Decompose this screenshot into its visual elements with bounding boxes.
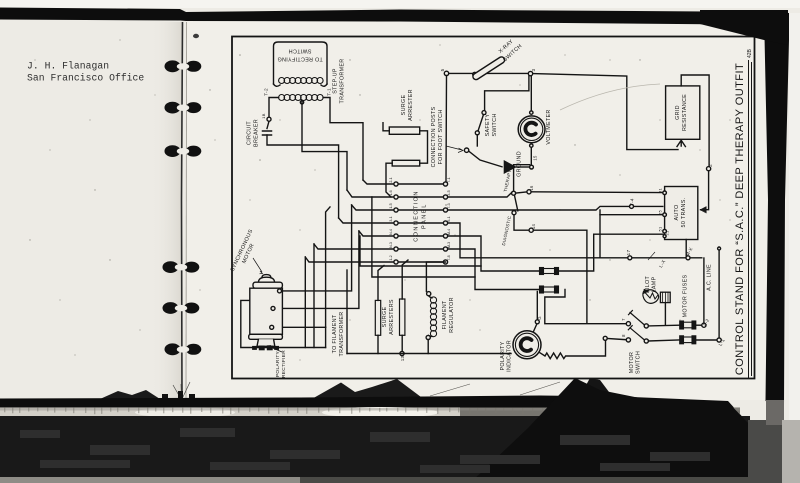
- svg-text:TRANSFORMER: TRANSFORMER: [340, 59, 346, 104]
- svg-text:LAMP: LAMP: [652, 276, 658, 292]
- svg-text:2-1: 2-1: [389, 177, 393, 182]
- svg-text:T-4: T-4: [630, 198, 635, 206]
- svg-text:SURGE: SURGE: [382, 307, 388, 328]
- svg-text:14: 14: [531, 224, 536, 230]
- svg-text:3-1: 3-1: [389, 216, 393, 221]
- svg-text:CONTROL STAND FOR “S.A.C.” DEE: CONTROL STAND FOR “S.A.C.” DEEP THERAPY …: [734, 63, 746, 375]
- svg-text:42B: 42B: [747, 48, 753, 58]
- svg-text:SWITCH: SWITCH: [288, 48, 311, 54]
- svg-text:N-4: N-4: [389, 229, 393, 235]
- svg-text:1-6: 1-6: [389, 190, 393, 195]
- svg-text:CIRCUIT: CIRCUIT: [247, 121, 253, 145]
- svg-text:2: 2: [708, 164, 713, 167]
- svg-text:G: G: [537, 316, 542, 320]
- svg-text:17: 17: [626, 250, 631, 256]
- svg-text:POLARITY: POLARITY: [275, 350, 281, 377]
- svg-text:MOTOR: MOTOR: [629, 352, 635, 373]
- svg-text:FILAMENT: FILAMENT: [442, 300, 448, 329]
- svg-text:21: 21: [665, 230, 670, 236]
- svg-text:RECTIFIER: RECTIFIER: [281, 350, 287, 378]
- svg-text:SWITCH: SWITCH: [492, 113, 498, 136]
- svg-text:1-5: 1-5: [389, 203, 393, 208]
- svg-text:1B: 1B: [261, 113, 266, 119]
- svg-text:RESISTANCE: RESISTANCE: [682, 94, 688, 131]
- svg-text:7-8: 7-8: [447, 255, 451, 260]
- svg-text:T-2: T-2: [264, 88, 270, 96]
- svg-text:8: 8: [621, 334, 626, 337]
- svg-text:SURGE: SURGE: [401, 95, 407, 116]
- svg-text:GRID: GRID: [675, 105, 681, 120]
- svg-text:ARRESTERS: ARRESTERS: [389, 299, 395, 335]
- svg-text:7-1: 7-1: [447, 177, 451, 182]
- svg-text:TO RECTIFYING: TO RECTIFYING: [277, 56, 322, 62]
- svg-text:SWITCH: SWITCH: [636, 351, 642, 374]
- svg-text:15: 15: [533, 155, 538, 161]
- svg-text:3-5: 3-5: [447, 190, 451, 195]
- svg-text:7-3: 7-3: [447, 203, 451, 208]
- svg-text:AUTO: AUTO: [674, 204, 680, 220]
- svg-text:51: 51: [658, 226, 663, 232]
- svg-text:CONNECTION POSTS: CONNECTION POSTS: [431, 106, 437, 167]
- svg-text:1-2: 1-2: [389, 255, 393, 260]
- svg-text:T-1: T-1: [327, 88, 333, 96]
- svg-text:ARRESTER: ARRESTER: [408, 89, 414, 121]
- svg-text:TO FILAMENT: TO FILAMENT: [332, 314, 338, 353]
- svg-text:6-1: 6-1: [447, 216, 451, 221]
- svg-text:BREAKER: BREAKER: [254, 119, 260, 147]
- svg-text:M-3: M-3: [447, 242, 451, 248]
- svg-text:VOLTMETER: VOLTMETER: [546, 109, 552, 144]
- svg-text:13: 13: [400, 356, 405, 362]
- svg-text:7: 7: [621, 318, 626, 321]
- svg-text:N-3: N-3: [389, 242, 393, 248]
- svg-text:31: 31: [658, 188, 663, 194]
- svg-text:3: 3: [531, 68, 536, 71]
- svg-text:POLARITY: POLARITY: [500, 341, 506, 370]
- svg-text:FOR FOOT SWITCH: FOR FOOT SWITCH: [438, 109, 444, 164]
- svg-text:GROUND: GROUND: [517, 151, 523, 177]
- svg-text:SAFETY: SAFETY: [485, 114, 491, 137]
- svg-text:REGULATOR: REGULATOR: [449, 297, 455, 333]
- svg-text:50 TRANS.: 50 TRANS.: [681, 198, 687, 228]
- svg-text:STEP-UP: STEP-UP: [333, 68, 339, 94]
- svg-text:TRANSFORMER: TRANSFORMER: [339, 312, 345, 357]
- svg-text:5: 5: [440, 68, 445, 71]
- svg-text:PANEL: PANEL: [422, 203, 428, 229]
- svg-text:16: 16: [529, 185, 534, 191]
- svg-text:55: 55: [658, 210, 663, 216]
- svg-text:INDICATOR: INDICATOR: [507, 340, 513, 372]
- svg-text:PILOT: PILOT: [645, 276, 651, 293]
- svg-text:J. H. Flanagan: J. H. Flanagan: [27, 61, 109, 72]
- svg-text:San Francisco Office: San Francisco Office: [27, 73, 144, 84]
- svg-text:MOTOR FUSES: MOTOR FUSES: [683, 275, 689, 318]
- svg-text:CONNECTION: CONNECTION: [414, 190, 420, 242]
- svg-text:A.C. LINE: A.C. LINE: [707, 264, 713, 291]
- svg-text:M-4: M-4: [447, 229, 451, 235]
